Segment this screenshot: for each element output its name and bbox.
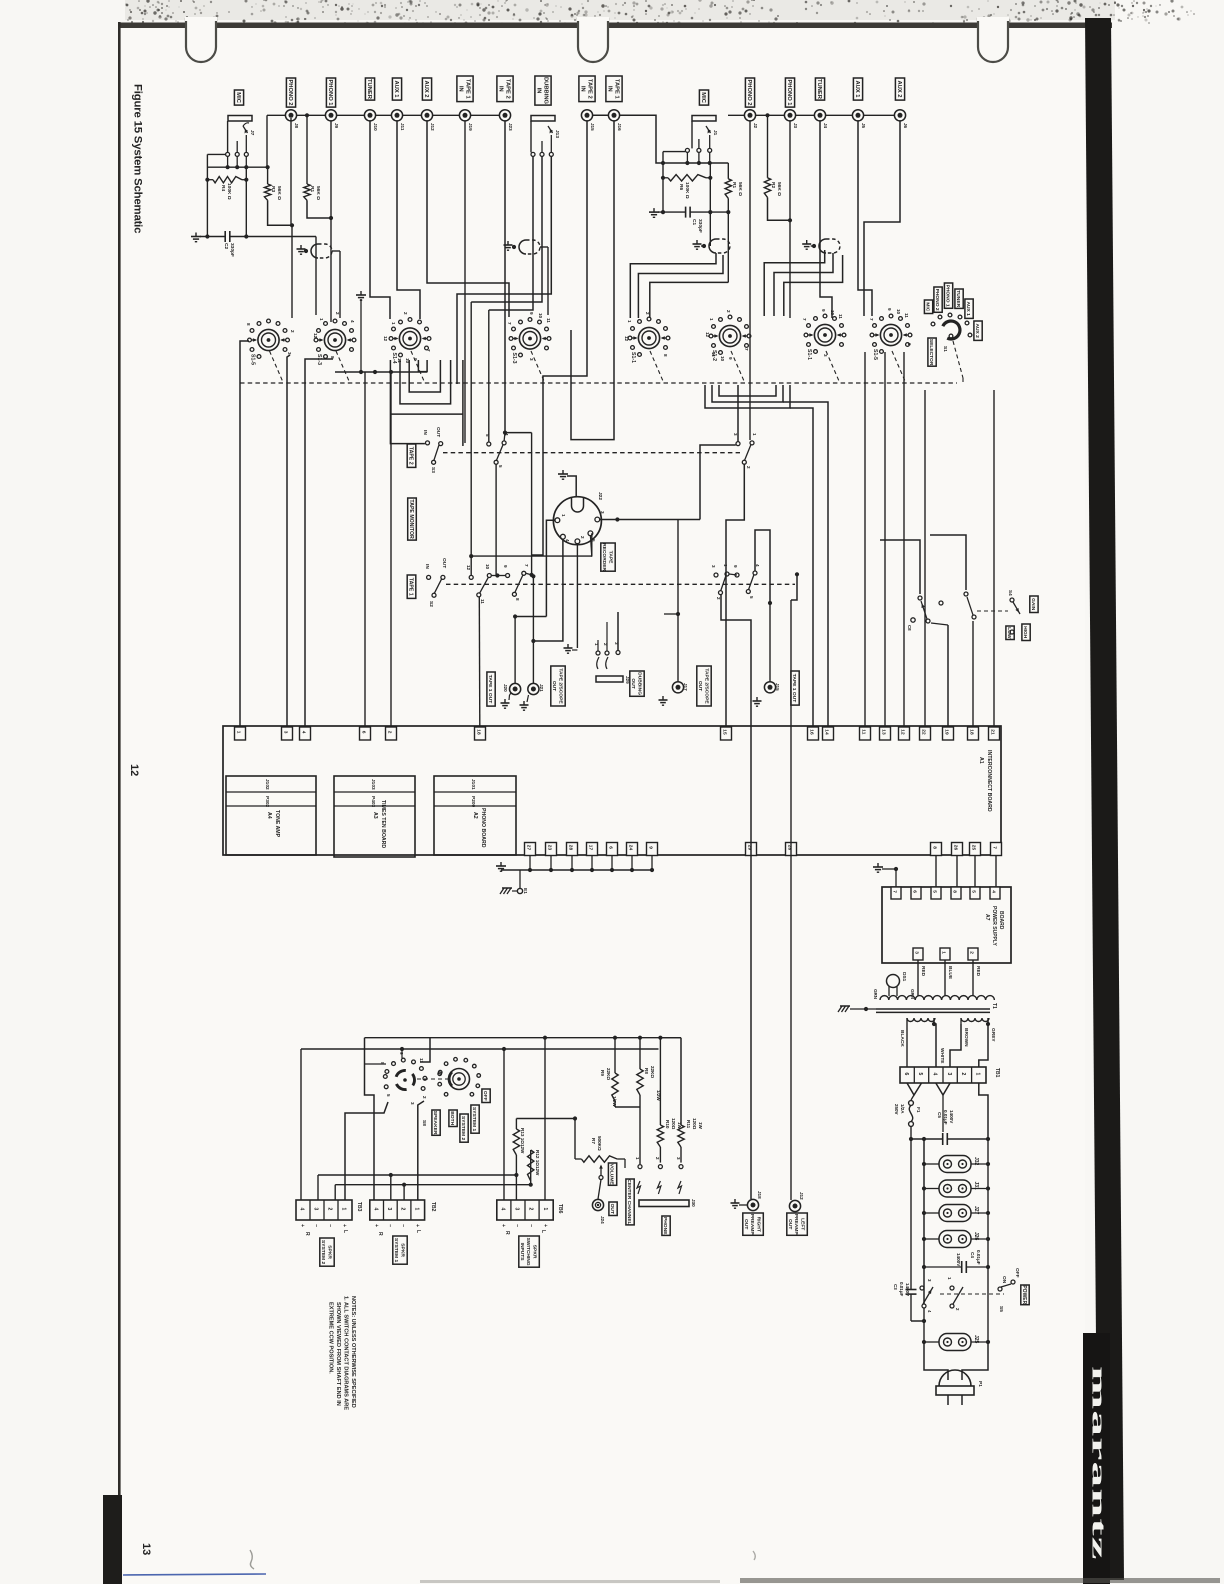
svg-text:TUNER: TUNER xyxy=(816,79,822,100)
svg-text:L: L xyxy=(540,1230,546,1233)
capacitor C3 xyxy=(910,1139,912,1289)
svg-text:TAPE 1 OUT: TAPE 1 OUT xyxy=(791,674,797,702)
rotary switch S1-3 second xyxy=(519,328,540,349)
svg-text:AUX 1: AUX 1 xyxy=(393,80,399,98)
svg-text:TAPE: TAPE xyxy=(607,551,613,564)
svg-text:1: 1 xyxy=(413,1208,419,1211)
svg-text:10: 10 xyxy=(720,356,725,362)
svg-text:1/2A: 1/2A xyxy=(900,1104,905,1114)
pin 6 interconnect bottom xyxy=(607,843,618,856)
wire tape1 in stem xyxy=(464,121,466,443)
svg-text:SHOWN VIEWED FROM SHAFT END IN: SHOWN VIEWED FROM SHAFT END IN xyxy=(335,1302,341,1406)
svg-text:marantz: marantz xyxy=(1088,1366,1109,1561)
wire contact 11 to pin 18 xyxy=(478,597,481,726)
svg-text:3: 3 xyxy=(282,731,288,734)
svg-text:PHONO 2: PHONO 2 xyxy=(934,289,940,311)
pin 1 PSU bottom xyxy=(940,948,950,960)
svg-text:S1-5: S1-5 xyxy=(250,354,256,365)
svg-text:8: 8 xyxy=(515,598,520,601)
svg-text:4: 4 xyxy=(350,320,355,323)
svg-text:TAPE 2: TAPE 2 xyxy=(504,79,510,99)
svg-text:12: 12 xyxy=(899,729,905,735)
ground bus under bottom pins xyxy=(529,856,531,871)
svg-text:100K Ω: 100K Ω xyxy=(684,182,690,199)
svg-text:GREY: GREY xyxy=(990,1028,996,1042)
svg-text:11: 11 xyxy=(860,729,866,734)
svg-text:J101: J101 xyxy=(470,779,476,790)
power ON/OFF contacts xyxy=(1011,1280,1015,1284)
svg-text:F1: F1 xyxy=(915,1107,921,1113)
svg-text:A1: A1 xyxy=(978,757,984,764)
wire J17 feed xyxy=(677,520,679,682)
svg-text:R6: R6 xyxy=(678,184,684,190)
svg-text:16: 16 xyxy=(808,729,814,735)
svg-text:3: 3 xyxy=(514,1208,520,1211)
svg-text:POWER: POWER xyxy=(1021,1285,1027,1304)
svg-text:PHONO 2: PHONO 2 xyxy=(746,79,752,105)
ground J21 xyxy=(523,701,525,705)
svg-text:NOTES: UNLESS OTHERWISE SPECIF: NOTES: UNLESS OTHERWISE SPECIFIED xyxy=(350,1296,356,1408)
pin 5 PSU top xyxy=(970,887,980,899)
label LEFT PREAMP OUT xyxy=(787,1213,808,1235)
dashed tape1 gang line xyxy=(446,583,795,585)
svg-text:J11: J11 xyxy=(400,123,405,131)
pin 18 interconnect top xyxy=(475,727,486,740)
svg-text:9: 9 xyxy=(647,846,653,849)
resistor R2 56K xyxy=(767,115,769,178)
svg-text:ON: ON xyxy=(1001,1276,1007,1284)
svg-text:−: − xyxy=(514,1224,520,1227)
svg-text:AUX 1: AUX 1 xyxy=(854,80,860,98)
svg-text:VOLUME: VOLUME xyxy=(609,1164,615,1186)
label OFF xyxy=(482,1089,490,1103)
svg-text:AUX 1: AUX 1 xyxy=(965,301,971,316)
svg-text:OUT: OUT xyxy=(551,681,557,691)
wire mic bus L xyxy=(207,153,225,155)
wire RED lead 2 xyxy=(972,960,974,996)
svg-text:2: 2 xyxy=(386,731,392,734)
svg-text:HIGH: HIGH xyxy=(1022,626,1028,639)
stray pen mark 2 xyxy=(753,1551,755,1560)
svg-text:1: 1 xyxy=(723,564,728,567)
nested U wires left group xyxy=(390,360,425,444)
svg-text:0.01μF: 0.01μF xyxy=(943,1110,948,1125)
svg-text:IN: IN xyxy=(535,88,541,94)
svg-text:J30: J30 xyxy=(691,1199,696,1207)
svg-text:IN: IN xyxy=(497,86,503,92)
svg-text:J18: J18 xyxy=(757,1191,762,1199)
svg-text:56K Ω: 56K Ω xyxy=(276,186,282,200)
jack J19 xyxy=(459,110,470,121)
svg-text:5: 5 xyxy=(386,1094,391,1097)
svg-text:15: 15 xyxy=(721,729,727,735)
shield can pair 3 xyxy=(696,240,698,244)
tape2 L contacts xyxy=(487,442,491,446)
label PHONO 1 R xyxy=(785,78,794,107)
svg-text:2: 2 xyxy=(645,312,650,315)
pin 22 interconnect top xyxy=(920,727,931,740)
svg-text:21: 21 xyxy=(989,729,995,735)
speaker switch second wafer xyxy=(449,1069,470,1090)
svg-text:J4: J4 xyxy=(823,123,828,129)
pin 3 interconnect top xyxy=(282,727,293,740)
resistor R1 56K (right ch) xyxy=(727,163,729,179)
pin 5 PSU top xyxy=(931,887,941,899)
svg-text:BOTH: BOTH xyxy=(449,1111,455,1125)
label TAPE 1 OUT R xyxy=(791,671,799,705)
svg-text:DS1: DS1 xyxy=(901,972,907,982)
svg-text:TAPE 2: TAPE 2 xyxy=(586,79,592,99)
wire TR pin5 xyxy=(590,536,591,557)
svg-text:56K Ω: 56K Ω xyxy=(315,186,321,200)
tape2 R contacts xyxy=(736,442,740,446)
pin 13 interconnect top xyxy=(880,727,891,740)
dubbing out contacts xyxy=(567,644,569,648)
svg-text:26: 26 xyxy=(952,845,958,851)
svg-text:TAPE 1: TAPE 1 xyxy=(464,79,470,100)
label POWER xyxy=(1021,1285,1029,1305)
svg-text:J103: J103 xyxy=(370,779,376,790)
svg-text:J21: J21 xyxy=(539,684,544,692)
label TAPE RECORDER xyxy=(601,543,615,571)
svg-text:1: 1 xyxy=(391,322,396,325)
svg-text:CENTER CHANNEL: CENTER CHANNEL xyxy=(626,1179,632,1224)
svg-text:TAPE 2/SCOPE: TAPE 2/SCOPE xyxy=(703,668,709,704)
pin 27 interconnect bottom xyxy=(525,843,536,856)
svg-text:C4: C4 xyxy=(970,1252,975,1258)
resistor R12 1ohm 12W xyxy=(530,1150,532,1185)
wire R3 to phono2 stem xyxy=(268,200,292,225)
svg-text:SPKR: SPKR xyxy=(399,1243,405,1257)
label AUX 1 R xyxy=(853,78,862,100)
binder notch 1 xyxy=(186,19,216,62)
label PHONO 2 xyxy=(286,78,295,107)
dashed power switch link xyxy=(940,1293,1004,1295)
svg-text:−: − xyxy=(313,1224,319,1227)
resistor R6 100K xyxy=(668,175,706,181)
AC outlet right bus xyxy=(987,1139,989,1342)
svg-text:SPEAKER: SPEAKER xyxy=(432,1111,438,1135)
blue pen line bottom left xyxy=(123,1574,266,1575)
svg-text:PHONO 1: PHONO 1 xyxy=(945,285,951,307)
resistor R4 100K xyxy=(213,177,242,183)
svg-text:R8: R8 xyxy=(644,1068,649,1074)
svg-text:C3: C3 xyxy=(893,1284,898,1290)
svg-text:R1: R1 xyxy=(309,186,315,192)
phone jack springs xyxy=(637,1181,641,1194)
label VOLUME xyxy=(608,1163,616,1185)
switch S4 gain xyxy=(1010,598,1014,602)
svg-text:J1: J1 xyxy=(712,130,718,136)
jack J2 PHONO 2 R xyxy=(744,110,755,121)
transformer T1 secondary 2 xyxy=(961,1018,989,1022)
label TUNER xyxy=(365,78,374,100)
label PHONE xyxy=(662,1216,670,1235)
svg-text:12: 12 xyxy=(466,565,471,571)
wires U to pins 16/14 xyxy=(790,408,813,726)
shield can pair 4 xyxy=(806,240,808,244)
jack J6 AUX 2 R xyxy=(894,110,905,121)
svg-text:8: 8 xyxy=(951,890,957,893)
dubbing out plate xyxy=(596,676,623,682)
svg-text:7: 7 xyxy=(991,846,997,849)
svg-text:S1-1: S1-1 xyxy=(630,352,636,363)
chassis ground T1 xyxy=(840,1005,850,1007)
wire fuse to AC bus xyxy=(910,1126,912,1139)
svg-text:SPKR: SPKR xyxy=(531,1245,537,1259)
label SPKR SYSTEM 2 xyxy=(320,1238,334,1266)
wire TR pin1 left xyxy=(546,520,555,616)
wire TR pin3 right xyxy=(600,519,700,521)
pin 25 interconnect bottom xyxy=(970,843,981,856)
svg-text:R10: R10 xyxy=(665,1120,670,1129)
svg-text:17: 17 xyxy=(587,845,593,851)
svg-text:10: 10 xyxy=(830,310,835,316)
svg-text:2: 2 xyxy=(746,466,751,469)
wire S8 contacts xyxy=(365,1063,387,1065)
svg-text:11: 11 xyxy=(480,599,485,604)
AC outlet J27 xyxy=(939,1205,971,1222)
wire phono2R stem xyxy=(749,121,751,318)
transformer T1 primary xyxy=(880,996,994,1000)
svg-text:−: − xyxy=(400,1224,406,1227)
svg-text:2: 2 xyxy=(655,1157,660,1160)
jack J23 xyxy=(499,110,510,121)
pin 18 interconnect top xyxy=(968,727,979,740)
label AUX 2 sel xyxy=(974,321,982,340)
board A4 TONE AMP xyxy=(226,776,316,855)
resistor R3 56K xyxy=(267,167,269,184)
rotary switch S1-1 (right grp) xyxy=(638,327,659,348)
wire aux1R stem xyxy=(858,121,872,316)
pin 6 interconnect top xyxy=(360,727,371,740)
svg-text:J12: J12 xyxy=(430,123,435,131)
svg-text:BLACK: BLACK xyxy=(899,1030,905,1047)
svg-text:SYSTEM 2: SYSTEM 2 xyxy=(320,1240,326,1264)
wire tape-in bus to right channel xyxy=(587,115,663,163)
svg-text:MIC: MIC xyxy=(235,92,241,103)
svg-text:1. ALL SWITCH CONTACT DIAGRAMS: 1. ALL SWITCH CONTACT DIAGRAMS ARE xyxy=(343,1296,349,1410)
tape1 R contacts xyxy=(714,573,718,577)
wire BLUE lead xyxy=(944,960,946,996)
pin 4 PSU top xyxy=(990,887,1000,899)
pilot lamp DS1 xyxy=(887,975,900,988)
wire dubbing contacts down xyxy=(471,156,542,302)
svg-text:5: 5 xyxy=(917,1073,923,1076)
svg-text:4: 4 xyxy=(500,1208,506,1211)
wires pins 29/28 to preamp jacks xyxy=(721,595,751,1199)
svg-text:R: R xyxy=(304,1232,310,1236)
jack J18 right preamp out xyxy=(747,1199,758,1210)
svg-text:−: − xyxy=(327,1224,333,1227)
wires pins to power supply xyxy=(935,856,937,888)
selector mechanism S1 xyxy=(943,321,960,339)
wire tape1R feeds xyxy=(749,318,751,440)
top border bar xyxy=(118,23,1112,29)
svg-text:8: 8 xyxy=(246,323,251,326)
label TUNER sel xyxy=(955,289,963,308)
transformer T1 secondary 1 xyxy=(907,1018,935,1022)
svg-text:OUT: OUT xyxy=(697,681,703,691)
resistor R13 1ohm 12W xyxy=(515,1119,517,1130)
resistor R1 56K (left ch) xyxy=(306,115,308,184)
wire to S1-3 xyxy=(315,237,317,316)
stray pen mark 1 xyxy=(250,1550,254,1569)
svg-text:A3: A3 xyxy=(372,812,378,819)
svg-text:2: 2 xyxy=(528,1208,534,1211)
svg-text:5: 5 xyxy=(931,890,937,893)
svg-text:OUT: OUT xyxy=(630,678,636,688)
svg-text:56K Ω: 56K Ω xyxy=(737,182,743,196)
label OUT xyxy=(609,1202,617,1216)
svg-text:IN: IN xyxy=(457,86,463,92)
svg-text:J12: J12 xyxy=(799,1192,804,1200)
svg-text:J15: J15 xyxy=(775,683,780,691)
svg-text:S1-3: S1-3 xyxy=(511,353,517,364)
pin 6 PSU top xyxy=(911,887,921,899)
svg-text:7: 7 xyxy=(426,349,431,352)
label TAPE 1 OUT xyxy=(487,672,495,706)
resistor R8 22K xyxy=(639,1038,641,1069)
svg-text:120Ω: 120Ω xyxy=(671,1118,676,1130)
svg-text:SYSTEM 1: SYSTEM 1 xyxy=(471,1107,477,1131)
wire TR pin2 xyxy=(576,544,578,648)
jack J8 PHONO 2 xyxy=(285,110,296,121)
speaker wiring top bus xyxy=(365,1037,682,1039)
mic input plate right xyxy=(692,116,716,122)
svg-text:4: 4 xyxy=(990,890,996,893)
wire tape2 in stem xyxy=(505,121,532,433)
jack J24 center channel out xyxy=(592,1199,603,1210)
label SELECTOR xyxy=(928,338,936,366)
terminal strip TB3 xyxy=(296,1200,352,1220)
svg-text:7: 7 xyxy=(891,890,897,893)
label AUX 2 xyxy=(422,78,431,100)
svg-text:MIC: MIC xyxy=(700,92,706,103)
pin 8 PSU top xyxy=(951,887,961,899)
pin 16 interconnect top xyxy=(808,727,819,740)
svg-text:S1-5: S1-5 xyxy=(872,349,878,360)
ground tape recorder xyxy=(562,470,564,474)
svg-text:3: 3 xyxy=(711,565,716,568)
board A2 PHONO BOARD xyxy=(434,776,516,855)
svg-text:TAPE 1: TAPE 1 xyxy=(613,79,619,100)
svg-text:9: 9 xyxy=(728,357,733,360)
svg-text:6: 6 xyxy=(903,1073,909,1076)
AC outlet left bus xyxy=(923,1139,925,1304)
svg-text:2: 2 xyxy=(968,951,974,954)
AC outlet J31 xyxy=(939,1180,971,1197)
svg-text:IN: IN xyxy=(579,86,585,92)
svg-text:1400V: 1400V xyxy=(956,1253,961,1267)
wire staircase right-ch A xyxy=(630,253,716,318)
gain switch group xyxy=(880,540,920,594)
contact row under mic R xyxy=(685,148,689,152)
svg-text:AUX 2: AUX 2 xyxy=(423,80,429,97)
ground J18 xyxy=(734,1199,736,1203)
svg-text:R3: R3 xyxy=(270,186,276,192)
pin 9 interconnect bottom xyxy=(647,843,658,856)
svg-text:EXTREME CCW POSITION.: EXTREME CCW POSITION. xyxy=(328,1302,334,1374)
label TAPE 1 IN xyxy=(606,76,622,102)
plug P1 xyxy=(939,1370,971,1386)
pin 28 interconnect bottom xyxy=(786,843,797,856)
svg-text:3: 3 xyxy=(313,1208,319,1211)
svg-text:+: + xyxy=(341,1224,347,1227)
pin 1 interconnect top xyxy=(235,727,246,740)
svg-text:2: 2 xyxy=(327,1208,333,1211)
svg-text:IN: IN xyxy=(422,430,428,435)
transformer T1 core xyxy=(876,1008,990,1010)
label MIC (left) xyxy=(234,90,243,105)
jack J9 PHONO 1 xyxy=(325,110,336,121)
svg-text:PREAMP: PREAMP xyxy=(793,1214,799,1236)
svg-text:3: 3 xyxy=(529,358,534,361)
pin 29 interconnect bottom xyxy=(746,843,757,856)
svg-text:J8: J8 xyxy=(294,123,299,129)
svg-text:25: 25 xyxy=(970,845,976,851)
svg-text:PHONO BOARD: PHONO BOARD xyxy=(480,808,486,848)
svg-text:1/2W: 1/2W xyxy=(612,1096,617,1107)
label SYSTEM 1 xyxy=(471,1105,479,1133)
rotary switch S1-2 xyxy=(719,325,740,346)
svg-text:100K Ω: 100K Ω xyxy=(226,183,232,200)
svg-text:14: 14 xyxy=(823,729,829,735)
jack J12b left preamp out xyxy=(789,1200,800,1211)
wire BROWN lead xyxy=(960,1018,962,1024)
wire dubbing stubs xyxy=(597,640,599,651)
label TAPE 2 IN xyxy=(497,76,513,102)
svg-text:TAPE 2: TAPE 2 xyxy=(408,447,414,465)
svg-text:S1: S1 xyxy=(942,346,948,352)
wire R9/R8 join xyxy=(615,1106,640,1108)
svg-text:1: 1 xyxy=(635,1157,640,1160)
svg-text:R1: R1 xyxy=(731,182,737,188)
svg-text:0.01μF: 0.01μF xyxy=(976,1250,981,1265)
svg-text:TB2: TB2 xyxy=(430,1202,436,1212)
svg-text:OFF: OFF xyxy=(1014,1268,1020,1278)
dashed speaker gang xyxy=(417,1078,448,1080)
svg-text:2: 2 xyxy=(400,1208,406,1211)
svg-text:R: R xyxy=(377,1232,383,1236)
wire GREY lead xyxy=(979,1018,988,1067)
svg-text:J13: J13 xyxy=(554,130,560,138)
svg-text:SWITCHING: SWITCHING xyxy=(525,1238,531,1266)
svg-text:R2: R2 xyxy=(770,182,776,188)
wire phono1 stem xyxy=(330,121,332,322)
svg-text:C2: C2 xyxy=(223,243,229,249)
rotary switch S1-5 (left) xyxy=(258,329,279,350)
svg-text:7: 7 xyxy=(524,564,529,567)
svg-text:9: 9 xyxy=(821,309,826,312)
svg-text:OUT: OUT xyxy=(441,558,447,568)
left border line xyxy=(118,22,121,1584)
wire BLACK lead xyxy=(906,1018,908,1067)
label AUX 2 R xyxy=(895,78,904,100)
svg-text:12: 12 xyxy=(383,336,388,342)
wire mic bus R xyxy=(663,151,685,153)
jack J15b tape1 out R xyxy=(764,682,775,693)
svg-text:2: 2 xyxy=(335,312,340,315)
svg-text:S1-1: S1-1 xyxy=(806,349,812,360)
label CENTER CHANNEL xyxy=(626,1179,634,1225)
ground PSU pin7 xyxy=(877,863,879,867)
svg-text:TUNER: TUNER xyxy=(366,79,372,100)
switch J7 xyxy=(243,126,248,133)
svg-text:J24: J24 xyxy=(600,1216,605,1224)
svg-text:12: 12 xyxy=(128,764,140,776)
pin 19 interconnect top xyxy=(943,727,954,740)
